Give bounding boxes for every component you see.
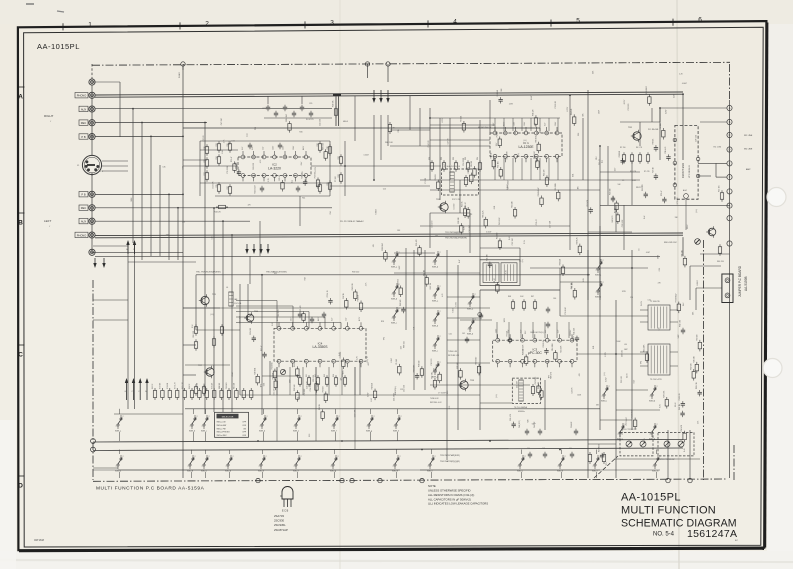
wire h extra 35 (616, 409, 660, 411)
wire vertical left 11 (213, 208, 215, 412)
svg-text:R72: R72 (262, 108, 265, 110)
svg-text:R77 4.7K: R77 4.7K (174, 381, 176, 389)
svg-text:2: 2 (440, 336, 441, 338)
texture resistor fmif (537, 144, 540, 151)
jack label REC L (79, 205, 88, 210)
svg-text:AGC: AGC (683, 189, 688, 192)
texture resistor frontend (648, 97, 651, 104)
svg-text:SW2-h: SW2-h (392, 471, 398, 473)
svg-text:MULTI FUNCTION P.C BOARD A: MULTI FUNCTION P.C BOARD AA-5159A (96, 486, 205, 492)
resistor if4 (466, 163, 469, 170)
svg-text:0.0047: 0.0047 (507, 184, 509, 189)
resistor tape2 (194, 342, 197, 349)
svg-text:C2 120: C2 120 (203, 136, 205, 142)
svg-text:1561247A: 1561247A (687, 528, 737, 540)
front end pin 3 (673, 183, 677, 187)
svg-text:R59 330: R59 330 (512, 201, 514, 207)
terminal wire A (660, 107, 727, 109)
svg-text:R81 560: R81 560 (234, 383, 236, 389)
terminal 5 (727, 161, 732, 166)
board outline left chain (92, 280, 94, 480)
svg-text:1: 1 (226, 466, 227, 468)
svg-text:SW1-d: SW1-d (259, 431, 265, 433)
svg-text:R78 100: R78 100 (197, 383, 199, 389)
front end pin r1 (696, 157, 700, 161)
switch S9 mid (469, 302, 471, 304)
svg-text:REC: REC (81, 121, 87, 125)
wire if v2 (439, 118, 441, 200)
svg-text:0.01: 0.01 (572, 174, 574, 177)
wire h extra 36 (588, 443, 616, 445)
svg-text:SW1-c: SW1-c (391, 323, 397, 325)
svg-text:R75 47: R75 47 (231, 157, 233, 163)
svg-text:PLL PL2 SRE-IO.TMA-A-2: PLL PL2 SRE-IO.TMA-A-2 (340, 220, 364, 223)
svg-text:R61 6.8K: R61 6.8K (679, 319, 681, 327)
svg-text:TP2: TP2 (640, 361, 642, 364)
texture resistor swgrid (384, 253, 387, 260)
texture capacitor amosc (697, 391, 701, 393)
terminal 8 (727, 203, 732, 208)
terminal 10 (727, 241, 732, 246)
wire row2 switch stub (396, 450, 398, 455)
junction dot 13 (429, 117, 431, 119)
svg-text:R28 8.2K: R28 8.2K (576, 237, 578, 245)
bus y441 (93, 440, 683, 443)
row2 link wire (118, 469, 400, 471)
svg-text:R58 220: R58 220 (352, 271, 359, 273)
svg-text:R63 2.2K: R63 2.2K (182, 381, 184, 389)
svg-text:R34 2K: R34 2K (214, 212, 221, 214)
junction dot 9 (231, 234, 233, 236)
resistor phono10 (318, 185, 321, 192)
svg-text:C19 6.8K: C19 6.8K (565, 306, 567, 314)
svg-text:SW1-a: SW1-a (391, 267, 398, 269)
svg-text:SW1-e REC: SW1-e REC (217, 435, 228, 437)
svg-text:1/2W: 1/2W (665, 109, 667, 113)
svg-text:R16 0.0047: R16 0.0047 (538, 187, 540, 196)
junction dot 3 (150, 136, 152, 138)
svg-text:R28 150: R28 150 (372, 383, 374, 389)
bottom chain node 6 (666, 478, 670, 482)
svg-text:C45 560: C45 560 (622, 428, 624, 435)
svg-text:C17 10K: C17 10K (549, 220, 551, 228)
wire h extra 20 (390, 129, 430, 131)
svg-text:2: 2 (301, 416, 302, 418)
switch S2 mid (393, 292, 395, 294)
switch row1 5 (295, 424, 297, 426)
wire mid v 600 (599, 146, 601, 430)
svg-text:R55 0.047: R55 0.047 (294, 359, 296, 367)
aux R bus (95, 108, 332, 110)
svg-text:R38 120: R38 120 (619, 151, 621, 157)
svg-text:R95 220K: R95 220K (555, 182, 557, 190)
svg-text:R24: R24 (216, 156, 218, 159)
wire row1 switch stub (193, 409, 195, 414)
svg-text:R27 47: R27 47 (261, 346, 263, 352)
svg-text:R38 0.01: R38 0.01 (254, 368, 256, 375)
wire row1 switch stub (370, 409, 372, 414)
svg-text:R60 8.2K: R60 8.2K (352, 282, 354, 290)
svg-text:1: 1 (392, 262, 393, 264)
svg-text:VR3 CT2232-15P: VR3 CT2232-15P (622, 429, 638, 431)
junction dot 25 (421, 449, 423, 451)
wire bus elbow a (335, 96, 337, 126)
input jack PHONO (89, 92, 95, 98)
svg-text:R72 0.01: R72 0.01 (272, 362, 274, 369)
switch row1 6 (333, 424, 335, 426)
svg-text:C74: C74 (569, 448, 572, 450)
svg-text:R13: R13 (596, 157, 598, 160)
svg-text:L50: L50 (624, 344, 627, 346)
svg-text:1: 1 (88, 21, 92, 28)
wire v extra 21 (354, 96, 356, 141)
svg-text:R68 150: R68 150 (403, 341, 405, 348)
wire vertical left 10 (204, 123, 206, 415)
wire v extra 22 (299, 196, 301, 226)
svg-text:C41 1M: C41 1M (571, 282, 573, 289)
punch hole top (767, 188, 786, 207)
wire ic4 pin drop 1 (276, 367, 278, 395)
svg-text:TP4: TP4 (255, 127, 257, 130)
wire if v4 (569, 95, 571, 180)
wire vertical left 8 (168, 194, 170, 260)
svg-text:R44 1K: R44 1K (496, 131, 498, 138)
VR box 3 (620, 432, 653, 456)
switch row1 7 (368, 424, 370, 426)
texture capacitor frontend (620, 159, 624, 161)
svg-text:1: 1 (331, 466, 332, 468)
svg-text:C42: C42 (462, 333, 465, 335)
svg-text:PHONO: PHONO (77, 94, 87, 98)
wire am v1 (647, 268, 649, 305)
wire v extra 2 (239, 284, 241, 395)
texture resistor amosc (683, 433, 686, 440)
svg-text:1: 1 (392, 318, 393, 320)
wire v extra 7 (479, 120, 481, 260)
wire mpx bottom2 (185, 408, 600, 410)
capacitor C36 (260, 187, 264, 189)
texture resistor fmif (534, 118, 537, 125)
svg-text:1: 1 (394, 426, 395, 428)
svg-text:0.01: 0.01 (494, 206, 496, 209)
wire v extra 26 (599, 226, 601, 300)
mpx fan wire 3 (236, 311, 309, 313)
scan margin bottom (0, 551, 793, 569)
svg-text:SW1-d PHONO: SW1-d PHONO (217, 432, 231, 434)
jack label AUX R (79, 106, 88, 111)
svg-text:P B: P B (81, 193, 85, 197)
wire ic1 pin drop 2 (503, 118, 505, 131)
wire h extra 2 (390, 145, 490, 147)
svg-text:R72 47: R72 47 (661, 191, 663, 197)
texture capacitor frontend (589, 209, 593, 211)
wire h extra 23 (588, 231, 632, 233)
svg-text:R75 450: R75 450 (167, 383, 169, 389)
svg-text:R7 33K: R7 33K (506, 330, 508, 337)
transistor TR6 (246, 314, 254, 322)
svg-text:C55 0.01: C55 0.01 (621, 376, 623, 383)
junction dot 5 (177, 207, 179, 209)
texture capacitor tape (328, 299, 332, 301)
svg-text:R24 100: R24 100 (497, 233, 499, 239)
svg-text:R46 15K: R46 15K (717, 261, 725, 263)
switch row2 13 (654, 464, 656, 466)
svg-text:R92 560: R92 560 (690, 363, 692, 369)
speck top-left a (26, 3, 34, 5)
terminal 9 (727, 216, 732, 221)
texture resistor mpxrow (433, 380, 436, 387)
svg-text:0.0047: 0.0047 (682, 83, 687, 85)
svg-text:R20: R20 (527, 420, 529, 423)
svg-text:E C B: E C B (282, 510, 289, 513)
wire ic4 pin drop 6 (341, 367, 343, 395)
DIN connector (82, 155, 101, 174)
wire v extra 8 (479, 290, 481, 430)
wire h extra 7 (93, 245, 128, 247)
wire mid v 632 (631, 250, 633, 430)
wire row2 switch stub (596, 450, 598, 455)
svg-text:24.4V: 24.4V (179, 72, 181, 78)
texture resistor tape (345, 301, 348, 308)
svg-text:R56 150: R56 150 (193, 331, 195, 338)
wire v extra 11 (544, 380, 546, 430)
wire h extra 25 (183, 344, 196, 346)
svg-text:R75 4.7K: R75 4.7K (327, 289, 329, 297)
wire h extra 26 (183, 374, 196, 376)
wire v extra 15 (623, 205, 625, 250)
wire eq h2 (200, 182, 330, 184)
svg-text:R38 0.047: R38 0.047 (382, 243, 384, 251)
svg-text:0.01: 0.01 (593, 346, 595, 349)
texture capacitor tape (252, 337, 256, 339)
texture capacitor vrarea (600, 454, 604, 456)
terminal 1 (727, 105, 732, 110)
wire h extra 11 (196, 329, 240, 331)
terminal 4 (727, 147, 732, 152)
switch grid wire 1 (413, 250, 415, 390)
svg-text:SW2-j: SW2-j (517, 471, 523, 473)
svg-text:R62 2.2K: R62 2.2K (679, 392, 681, 400)
texture resistor swgrid (425, 278, 428, 285)
wire ic4 pin drop 3 (302, 367, 304, 395)
resistor tape3 (194, 387, 197, 394)
jack label AUX L (79, 218, 88, 223)
svg-text:R91 120: R91 120 (400, 300, 402, 306)
svg-text:T2 340-235: T2 340-235 (650, 301, 660, 303)
svg-text:ALL RESISTORS IN OHMS (¼W-(J)): ALL RESISTORS IN OHMS (¼W-(J)) (428, 493, 474, 497)
left chain node 2 (91, 447, 96, 452)
svg-text:R66 10K: R66 10K (385, 142, 393, 144)
svg-text:2: 2 (374, 416, 375, 418)
svg-text:SW1-g: SW1-g (366, 431, 372, 433)
svg-text:R42 1K: R42 1K (343, 292, 345, 299)
svg-text:R62 1K: R62 1K (152, 383, 154, 389)
svg-text:AUX: AUX (81, 220, 87, 224)
bottom chain node 1 (256, 478, 260, 482)
svg-text:SW2-d: SW2-d (225, 471, 231, 473)
svg-text:C7 560: C7 560 (335, 176, 337, 182)
svg-text:1: 1 (294, 466, 295, 468)
resistor if1 (430, 163, 433, 170)
wire ic4 pin drop 5 (328, 367, 330, 395)
texture capacitor pll (508, 339, 512, 341)
svg-text:1: 1 (468, 304, 469, 306)
wire if top (430, 117, 560, 119)
resistor phono8 (228, 187, 231, 194)
paper tint top (0, 0, 793, 24)
texture capacitor frontend (662, 198, 666, 200)
pb L bus (95, 193, 183, 195)
svg-text:R4 2.7K: R4 2.7K (636, 147, 643, 149)
texture resistor midtop (460, 226, 463, 233)
svg-text:1: 1 (518, 466, 519, 468)
svg-text:SW1-c FM: SW1-c FM (217, 428, 226, 430)
resistor pll cluster (511, 302, 514, 309)
svg-text:T3 OSC-4770: T3 OSC-4770 (650, 379, 662, 381)
svg-text:R68 330: R68 330 (458, 217, 460, 223)
svg-text:2: 2 (440, 311, 441, 313)
wire h extra 28 (394, 272, 480, 274)
wire h extra 8 (128, 261, 196, 263)
svg-text:2: 2 (197, 416, 198, 418)
wire mid v 616 (615, 300, 617, 478)
svg-text:1/2W: 1/2W (509, 104, 513, 106)
texture capacitor tape (262, 353, 266, 355)
switch row1 4 (261, 424, 263, 426)
svg-text:R37 470: R37 470 (300, 306, 302, 312)
wire tape rail (183, 307, 490, 309)
junction dot 15 (587, 274, 589, 276)
svg-text:R70 150: R70 150 (419, 361, 421, 367)
terminal column wire (729, 100, 731, 478)
svg-text:R4 10K: R4 10K (660, 122, 662, 129)
svg-text:R53 0.0047: R53 0.0047 (632, 410, 634, 419)
texture resistor swgrid (399, 288, 402, 295)
outer border bottom emphasis (19, 549, 764, 552)
supply arrow 2 (380, 90, 382, 99)
svg-text:2: 2 (475, 319, 476, 321)
svg-text:R90 560: R90 560 (294, 384, 296, 390)
resistor phono2 (205, 160, 208, 167)
svg-text:AA-1015PL: AA-1015PL (621, 492, 681, 504)
svg-text:R53 470: R53 470 (587, 200, 589, 206)
resistor row mpx (298, 378, 301, 385)
node on top chain 3 (386, 62, 390, 66)
svg-text:2: 2 (205, 21, 209, 28)
svg-text:C28 68K: C28 68K (304, 388, 306, 396)
svg-text:C50: C50 (630, 297, 633, 299)
svg-text:SW1-a: SW1-a (432, 301, 439, 303)
svg-text:1: 1 (650, 396, 651, 398)
svg-text:R12 470: R12 470 (544, 170, 546, 176)
svg-text:SW1-c: SW1-c (201, 431, 207, 433)
wire v extra 35 (419, 108, 421, 146)
input jack REC L (89, 205, 95, 211)
jack label P B L (79, 192, 88, 197)
rec R bus (95, 122, 207, 124)
jack label PHONO R (75, 93, 88, 98)
svg-text:LEFT: LEFT (44, 219, 52, 223)
texture resistor fmif (499, 170, 502, 177)
agc node (684, 194, 689, 199)
wire top cluster (264, 117, 332, 119)
svg-text:C10 47: C10 47 (536, 219, 538, 225)
wire eq h3 (215, 195, 330, 197)
texture resistor midtop (463, 209, 466, 216)
tone band mid (0, 150, 793, 280)
wire h extra 9 (560, 281, 600, 283)
texture resistor pll (537, 386, 540, 393)
mpx fan wire 1 (236, 300, 277, 302)
wire eq top (200, 149, 238, 151)
node on top chain 2 (365, 62, 369, 66)
texture resistor swgrid (418, 248, 421, 255)
wire ic3 pin up 6 (556, 322, 558, 338)
transistor TR7 (206, 368, 214, 376)
svg-text:0.47: 0.47 (459, 260, 461, 263)
svg-text:R10 0.047: R10 0.047 (534, 151, 536, 159)
svg-text:008 9848: 008 9848 (34, 539, 45, 542)
svg-text:(LL): (LL) (292, 180, 294, 183)
front end pin 1 (673, 138, 677, 142)
junction dot 6 (204, 122, 206, 124)
switch row2 2 (189, 464, 191, 466)
input jack P B L (89, 191, 95, 197)
texture resistor tape (302, 314, 305, 321)
jack top chain link (91, 64, 93, 79)
terminal 3 (727, 132, 732, 137)
switch row2 6 (295, 464, 297, 466)
texture resistor tape (359, 303, 362, 310)
junction dot 7 (213, 207, 215, 209)
svg-text:1/2W: 1/2W (504, 318, 506, 322)
svg-text:2: 2 (209, 416, 210, 418)
capacitor top2 (274, 112, 278, 114)
svg-text:C35: C35 (162, 166, 165, 168)
wire vertical left 4 (132, 109, 134, 243)
resistor phono4 (217, 144, 220, 151)
wire pll top (480, 247, 520, 249)
wire am h2 (560, 315, 648, 317)
input jack AUX (89, 106, 95, 112)
svg-text:R53 1M: R53 1M (423, 269, 425, 276)
din wire 2 (102, 165, 128, 167)
texture resistor mpxrow (477, 366, 480, 373)
switch row2 3 (203, 464, 205, 466)
resistor phono13 (339, 157, 342, 164)
svg-text:C43 1K: C43 1K (572, 387, 574, 394)
resistor phono1 (205, 147, 208, 154)
wire if bottom2 (430, 189, 600, 191)
svg-text:R97 470: R97 470 (432, 372, 434, 378)
svg-text:R60 560: R60 560 (457, 362, 459, 368)
jumper board pin 1 (725, 278, 730, 283)
wire if v1 (429, 108, 431, 180)
junction dot 24 (341, 440, 343, 442)
phono L bus drop (682, 237, 684, 256)
resistor phono7 (228, 144, 231, 151)
svg-text:TP5: TP5 (606, 462, 608, 465)
svg-text:1: 1 (433, 296, 434, 298)
svg-text:R25 0.01: R25 0.01 (397, 279, 399, 286)
svg-text:R25: R25 (216, 184, 218, 187)
svg-text:D: D (729, 149, 731, 152)
texture resistor phonoEQ (288, 124, 291, 131)
wire fe-ant 1 (698, 162, 716, 164)
wire ic3 pin up 7 (568, 322, 570, 338)
resistor R66 (388, 125, 391, 132)
svg-text:C14 220K: C14 220K (213, 364, 215, 373)
